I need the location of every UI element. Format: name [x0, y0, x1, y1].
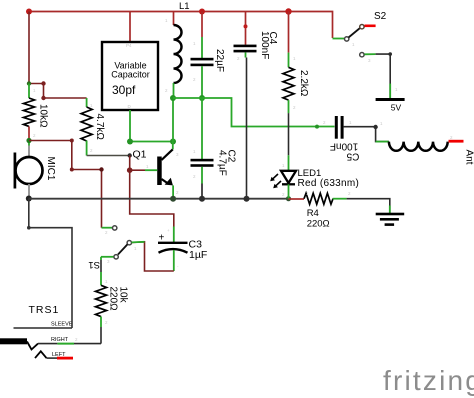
wire LED to R4 red	[289, 198, 305, 200]
wire left maroon drop to 10k	[28, 12, 30, 84]
resistor 10k 220	[96, 285, 129, 343]
svg-text:30pf: 30pf	[112, 83, 136, 97]
wire C4 to ground rail	[246, 58, 248, 199]
node 22uF bottom junction	[199, 95, 205, 101]
svg-text:1µF: 1µF	[189, 249, 207, 261]
svg-text:fritzing: fritzing	[383, 365, 474, 396]
wire maroon MIC to S1 top	[29, 141, 102, 228]
svg-text:Ant: Ant	[464, 150, 474, 165]
node collector junction	[170, 139, 176, 145]
svg-text:Red (633nm): Red (633nm)	[298, 178, 360, 189]
pin labels faint	[33, 18, 453, 342]
svg-text:220Ω: 220Ω	[307, 219, 330, 230]
capacitor C2 4.7uF	[191, 98, 237, 199]
node bend s2-5v	[388, 52, 392, 56]
transistor Q1	[130, 142, 173, 199]
wire S1 to R-10k/220	[100, 257, 102, 286]
node MIC1 ground junction	[26, 196, 32, 202]
resistor R 4.7k	[81, 98, 105, 156]
node bend mic-s1 b	[70, 168, 74, 172]
svg-text:4.7µF: 4.7µF	[216, 150, 227, 176]
node bend C5-ant	[373, 125, 377, 129]
node base junction	[127, 167, 133, 173]
node 2.2k rail junction	[285, 8, 291, 14]
node 10k top junction	[27, 81, 31, 85]
wire maroon branch to 4.7k top	[29, 84, 87, 99]
ground symbol	[376, 206, 405, 226]
inductor L1	[174, 1, 190, 98]
svg-text:P4: P4	[126, 43, 132, 48]
node base net top	[128, 153, 132, 157]
jack TRS1	[0, 304, 73, 358]
node MIC1 top junction	[26, 138, 31, 143]
svg-text:2.2kΩ: 2.2kΩ	[298, 70, 309, 97]
wire TRS left stub	[47, 357, 74, 359]
resistor R4	[304, 193, 347, 229]
svg-text:22µF: 22µF	[214, 49, 225, 72]
switch S1	[88, 226, 144, 270]
svg-text:R4: R4	[307, 208, 319, 219]
svg-text:S1: S1	[88, 259, 100, 270]
svg-text:4.7kΩ: 4.7kΩ	[94, 114, 105, 141]
node bend 4.7k branch b	[41, 96, 45, 100]
wire S2 to 5V	[376, 54, 391, 98]
node bend 4.7k branch a	[41, 81, 45, 85]
node C2 ground junction	[199, 196, 205, 202]
node bend mic-s1 c	[99, 167, 103, 171]
svg-text:C5: C5	[346, 150, 359, 161]
svg-text:10k: 10k	[118, 287, 129, 304]
capacitor C5 100nF	[315, 116, 376, 161]
wire C5 to antenna coil	[376, 127, 389, 142]
svg-text:Capacitor: Capacitor	[111, 70, 150, 80]
wire 2.2k to LED	[288, 113, 290, 155]
LED LED1	[270, 155, 359, 198]
svg-text:SLEEVE: SLEEVE	[51, 322, 73, 328]
wire top V+ rail	[29, 12, 333, 39]
node C4 ground junction	[244, 196, 250, 202]
node emitter ground junction	[170, 196, 176, 202]
svg-text:5V: 5V	[391, 103, 402, 113]
node top-left junction	[26, 9, 32, 15]
wire varcap bottom lead	[129, 110, 131, 142]
wire TRS sleeve net	[29, 199, 72, 329]
logo fritzing	[383, 365, 474, 396]
capacitor 22uF	[191, 12, 226, 99]
wire TRS right net	[38, 343, 101, 345]
svg-text:MIC1: MIC1	[45, 157, 56, 181]
node varcap junction	[127, 139, 133, 145]
node bend mic-s1 a	[70, 139, 74, 143]
wire green rail to C5	[173, 98, 335, 127]
node bend sleeve	[27, 226, 31, 230]
wire ground rail	[29, 198, 289, 200]
svg-text:100nF: 100nF	[330, 140, 358, 151]
capacitor C3 electrolytic	[158, 227, 207, 272]
node L1/22uF rail junction	[199, 9, 205, 15]
wire red stub antenna	[449, 140, 464, 143]
wire collector link horizontal	[130, 141, 173, 143]
wire R4 to ground	[347, 199, 390, 214]
capacitor C4 100nF	[234, 12, 279, 60]
wire collector vertical link	[172, 98, 174, 142]
wire Q1 base maroon net	[130, 156, 174, 227]
svg-text:100nF: 100nF	[259, 31, 270, 59]
svg-text:S2: S2	[374, 11, 387, 22]
svg-text:Q1: Q1	[133, 149, 147, 161]
svg-text:10kΩ: 10kΩ	[38, 104, 49, 128]
wire C3 loop to S1 pole	[132, 242, 174, 271]
resistor R 10k	[24, 84, 49, 141]
switch S2	[333, 11, 387, 57]
resistor 2.2k	[283, 12, 309, 114]
wire 4.7k to Q1 base net	[87, 155, 130, 157]
svg-text:L1: L1	[179, 1, 190, 12]
svg-text:RIGHT: RIGHT	[51, 337, 69, 343]
svg-text:220Ω: 220Ω	[108, 287, 119, 312]
microphone MIC1	[15, 141, 56, 199]
svg-text:TRS1: TRS1	[29, 304, 60, 316]
svg-text:+: +	[167, 228, 170, 233]
power 5V supply symbol	[376, 84, 405, 113]
variable capacitor VC1 box	[102, 12, 158, 111]
node LED ground junction	[286, 196, 291, 201]
node L1 bottom junction	[170, 95, 176, 101]
inductor antenna coil	[376, 142, 474, 165]
